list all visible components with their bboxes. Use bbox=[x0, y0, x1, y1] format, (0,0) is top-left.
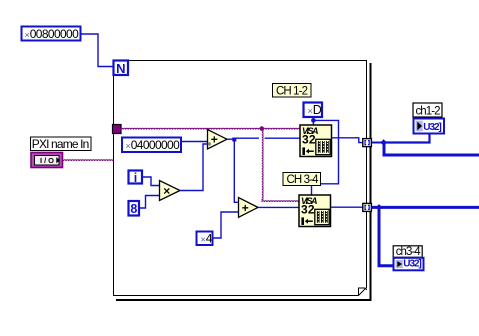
purple wire to VISA node 2 bbox=[262, 201, 299, 202]
wire to ch1-2 indicator bbox=[385, 134, 430, 143]
N count terminal bbox=[114, 61, 129, 76]
purple wire I/O to border bbox=[64, 160, 113, 161]
wire VISA2 out to tunnel bbox=[331, 206, 363, 208]
ch3-4 U32 indicator bbox=[394, 258, 424, 271]
svg-text:×: × bbox=[163, 184, 170, 198]
thick wire down and right bbox=[384, 144, 479, 156]
ch1-2 label bbox=[413, 103, 442, 117]
svg-text:+: + bbox=[211, 133, 218, 147]
constant x00800000 bbox=[22, 27, 81, 41]
junction add1 bbox=[232, 138, 236, 142]
constant xD bbox=[304, 103, 323, 118]
svg-text:i: i bbox=[134, 171, 137, 185]
svg-text:ch1-2: ch1-2 bbox=[416, 105, 441, 117]
wire add1 to VISA1 (gap at purple crossing) bbox=[236, 137, 259, 139]
I/O control bbox=[31, 153, 63, 168]
CH 1-2 label bbox=[273, 84, 312, 98]
purple wire tunnel to VISA node 1 bbox=[121, 128, 300, 129]
wire add1 out bbox=[227, 138, 233, 140]
PXI name In label bbox=[31, 137, 92, 151]
ch3-4 label bbox=[393, 246, 422, 257]
thick wire down to ch3-4 bbox=[379, 209, 394, 266]
wire mult to add1 bbox=[180, 144, 208, 191]
wire tunnel1 to junction bbox=[372, 142, 383, 144]
wire add2 to VISA2 bbox=[258, 206, 299, 208]
svg-text:×00800000: ×00800000 bbox=[25, 27, 80, 41]
tunnel 1 bbox=[363, 139, 372, 147]
purple junction bbox=[260, 126, 265, 131]
multiply node bbox=[160, 181, 181, 201]
add node 1 bbox=[208, 130, 228, 150]
wire const to add1 bbox=[181, 141, 208, 143]
junction dot 2 bbox=[376, 204, 383, 211]
i terminal bbox=[129, 171, 143, 184]
svg-text:N: N bbox=[116, 61, 125, 76]
constant 8 bbox=[129, 201, 140, 216]
VISA node 1 bbox=[300, 125, 332, 157]
purple tunnel bbox=[113, 125, 122, 134]
svg-text:ch3-4: ch3-4 bbox=[396, 246, 422, 258]
thick wire tunnel2 right bbox=[372, 206, 479, 209]
add node 2 bbox=[239, 198, 259, 218]
svg-text:×4: ×4 bbox=[201, 232, 213, 246]
svg-text:8: 8 bbox=[130, 202, 137, 216]
CH 3-4 label bbox=[283, 173, 321, 186]
svg-text:×04000000: ×04000000 bbox=[126, 138, 181, 152]
svg-text:×D: ×D bbox=[308, 103, 322, 117]
wire xD down to VISA1 bbox=[312, 117, 314, 125]
wire junction down to add2 bbox=[234, 141, 238, 202]
svg-text:U32]: U32] bbox=[403, 259, 422, 270]
coercion dot bbox=[208, 142, 211, 145]
svg-text:+: + bbox=[242, 201, 249, 215]
wire constant to N bbox=[81, 34, 114, 67]
VISA node 2 bbox=[299, 195, 331, 227]
tunnel 2 bbox=[363, 203, 372, 211]
svg-text:PXI name In: PXI name In bbox=[32, 137, 90, 151]
junction dot 1 bbox=[380, 139, 387, 146]
ch1-2 U32 indicator bbox=[414, 119, 445, 134]
svg-text:CH 1-2: CH 1-2 bbox=[276, 85, 308, 97]
wire 8 to mult bbox=[139, 196, 160, 209]
constant x04000000 bbox=[122, 138, 181, 153]
wire VISA1 out to tunnel bbox=[331, 138, 363, 143]
for loop corner fold bbox=[359, 288, 367, 296]
svg-text:32: 32 bbox=[301, 203, 315, 217]
constant x4 bbox=[197, 232, 213, 246]
for loop border bbox=[114, 61, 371, 301]
purple wire down bbox=[262, 130, 263, 201]
svg-text:32: 32 bbox=[302, 133, 316, 147]
wire x4 to add2 bbox=[213, 212, 239, 238]
wire xD branch to VISA2 bbox=[315, 120, 339, 183]
svg-text:CH 3-4: CH 3-4 bbox=[287, 174, 320, 186]
svg-text:U32]: U32] bbox=[423, 122, 442, 133]
wire i to mult bbox=[142, 177, 160, 186]
